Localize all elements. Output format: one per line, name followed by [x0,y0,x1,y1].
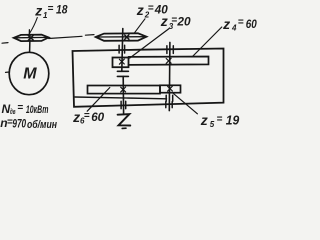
gearbox housing [73,49,224,107]
label z6=60 [72,109,104,126]
leader z1 [30,18,38,34]
output symbol Z [118,114,131,125]
label z5=19 [200,112,240,129]
label z1=18 [34,2,68,19]
svg-text:об/мин: об/мин [27,119,57,131]
shaft II (vertical) [168,42,171,110]
shaft I (vertical, pulley z2 to gear z3) [122,29,123,72]
pulley z2 [96,33,147,41]
svg-text:=: = [84,111,90,122]
shaft III (output) [117,75,128,77]
svg-text:970: 970 [12,116,26,130]
gear z5 [160,85,181,92]
leader z3 [130,29,169,58]
label n=970 ob/min [0,116,57,131]
leader z6 [87,88,110,112]
leader z5 [172,92,197,114]
gear z4 [129,57,209,65]
svg-text:5: 5 [210,120,215,129]
svg-text:z: z [160,13,168,29]
svg-text:60: 60 [246,17,257,31]
label z2=40 [136,2,168,19]
label Ndv=10kVt [2,102,49,116]
svg-text:18: 18 [56,4,68,16]
bearing shaft I at housing top [119,45,125,53]
svg-text:z: z [72,109,80,125]
gear z6 [88,86,161,94]
housing inner bottom wall [75,97,167,99]
svg-text:10кВт: 10кВт [26,104,49,116]
svg-text:4: 4 [231,24,237,33]
leader z4 [192,27,222,57]
svg-text:z: z [34,2,42,18]
shaft I end bar [117,70,128,72]
bearing shaft II at housing bottom [166,102,172,108]
svg-text:=: = [48,3,54,14]
bearing shaft II at inner wall [166,95,173,101]
svg-text:z: z [200,112,208,128]
label z3=20 [160,13,191,31]
svg-text:20: 20 [176,14,190,28]
motor shaft (vertical) [29,35,31,52]
belt line (dash-dot) [2,42,8,45]
motor M [9,52,49,94]
gear z3 [113,58,129,68]
svg-text:=: = [17,103,23,114]
motor terminal tick [6,71,10,73]
svg-text:=: = [148,3,154,14]
svg-text:M: M [23,65,37,82]
bearing shaft III at housing bottom [121,101,126,108]
svg-text:60: 60 [91,110,104,124]
svg-text:19: 19 [226,112,240,127]
pulley z1 [14,35,49,42]
svg-text:z: z [136,2,144,18]
label z4=60 [222,16,257,33]
svg-text:=: = [217,114,223,125]
bearing shaft II at housing top [167,46,173,54]
svg-text:=: = [238,17,244,28]
svg-text:=: = [171,15,177,26]
leader z2 [134,19,145,33]
svg-text:дв: дв [10,107,16,116]
svg-text:z: z [222,16,230,32]
